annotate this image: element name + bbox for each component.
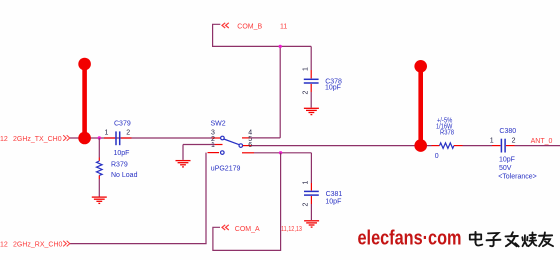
svg-text:2: 2 bbox=[512, 137, 516, 144]
power bar right bbox=[414, 60, 427, 152]
resistor R379 bbox=[97, 138, 103, 197]
svg-text:uPG2179: uPG2179 bbox=[211, 165, 241, 172]
wire ANT_0 bbox=[515, 145, 560, 147]
svg-text:COM_B: COM_B bbox=[237, 23, 262, 30]
logo chinese 发 bbox=[506, 232, 519, 246]
svg-text:2: 2 bbox=[126, 129, 130, 136]
svg-text:<Tolerance>: <Tolerance> bbox=[498, 174, 537, 181]
svg-text:No Load: No Load bbox=[111, 172, 138, 179]
svg-text:2: 2 bbox=[303, 203, 310, 207]
net COM_A bbox=[213, 153, 302, 251]
wire TX line bbox=[70, 137, 215, 139]
svg-text:1: 1 bbox=[302, 67, 309, 71]
svg-text:12: 12 bbox=[0, 136, 8, 143]
svg-text:10pF: 10pF bbox=[114, 150, 130, 157]
logo chinese 子 bbox=[487, 233, 501, 246]
logo chinese 电 bbox=[470, 232, 483, 246]
svg-text:10pF: 10pF bbox=[325, 198, 341, 205]
svg-text:COM_A: COM_A bbox=[235, 226, 260, 233]
junction COM_B / pin4 bbox=[279, 45, 282, 48]
wire pin1 down bbox=[205, 153, 207, 244]
svg-text:SW2: SW2 bbox=[211, 120, 226, 127]
svg-text:11,12,13: 11,12,13 bbox=[281, 226, 302, 233]
ground below R379 bbox=[92, 197, 107, 203]
junction pin6 / COM_A bbox=[279, 151, 282, 154]
svg-text:R378: R378 bbox=[440, 130, 454, 137]
net COM_B bbox=[213, 23, 312, 47]
svg-text:2GHz_RX_CH0: 2GHz_RX_CH0 bbox=[13, 241, 63, 248]
resistor R378 bbox=[432, 143, 463, 149]
logo chinese 友 bbox=[539, 232, 553, 246]
wire RX line bbox=[70, 243, 207, 245]
svg-text:R379: R379 bbox=[111, 162, 128, 169]
wire pin2 to ground bbox=[183, 145, 215, 160]
svg-text:ANT_0: ANT_0 bbox=[531, 138, 553, 145]
svg-text:10pF: 10pF bbox=[499, 157, 515, 164]
capacitor C380 bbox=[492, 139, 515, 153]
svg-text:C380: C380 bbox=[499, 128, 516, 135]
port 2GHz_RX_CH0 bbox=[0, 241, 70, 249]
svg-text:elecfans·com: elecfans·com bbox=[358, 228, 462, 250]
ground at SW2 pin 2 bbox=[176, 161, 191, 167]
SW2 armature bbox=[224, 139, 239, 145]
svg-text:C381: C381 bbox=[326, 191, 343, 198]
svg-text:2GHz_TX_CH0: 2GHz_TX_CH0 bbox=[13, 136, 62, 143]
port 2GHz_TX_CH0 bbox=[0, 135, 70, 143]
svg-text:50V: 50V bbox=[499, 165, 512, 172]
capacitor C379 bbox=[104, 131, 132, 145]
capacitor C381 bbox=[304, 153, 319, 220]
capacitor C378 bbox=[304, 46, 319, 107]
svg-text:C379: C379 bbox=[114, 121, 131, 128]
svg-text:1: 1 bbox=[490, 137, 494, 144]
power bar left bbox=[78, 58, 91, 145]
wire pin5 / antenna line bbox=[252, 145, 432, 147]
svg-text:0: 0 bbox=[435, 153, 439, 160]
junction TX/R379 bbox=[98, 136, 101, 139]
ground below C381 bbox=[304, 221, 319, 227]
wire pin4 to COM_B rail bbox=[251, 46, 281, 137]
wire R378 to C380 bbox=[463, 145, 493, 147]
svg-text:1: 1 bbox=[303, 181, 310, 185]
svg-text:10pF: 10pF bbox=[325, 85, 341, 92]
svg-text:2: 2 bbox=[302, 91, 309, 95]
svg-text:1: 1 bbox=[211, 142, 215, 149]
svg-text:1: 1 bbox=[105, 129, 109, 136]
logo chinese 烧 bbox=[522, 232, 536, 246]
svg-text:12: 12 bbox=[0, 241, 8, 248]
ground below C378 bbox=[304, 108, 319, 114]
svg-text:11: 11 bbox=[280, 23, 287, 30]
wire pin6 line bbox=[254, 152, 311, 154]
